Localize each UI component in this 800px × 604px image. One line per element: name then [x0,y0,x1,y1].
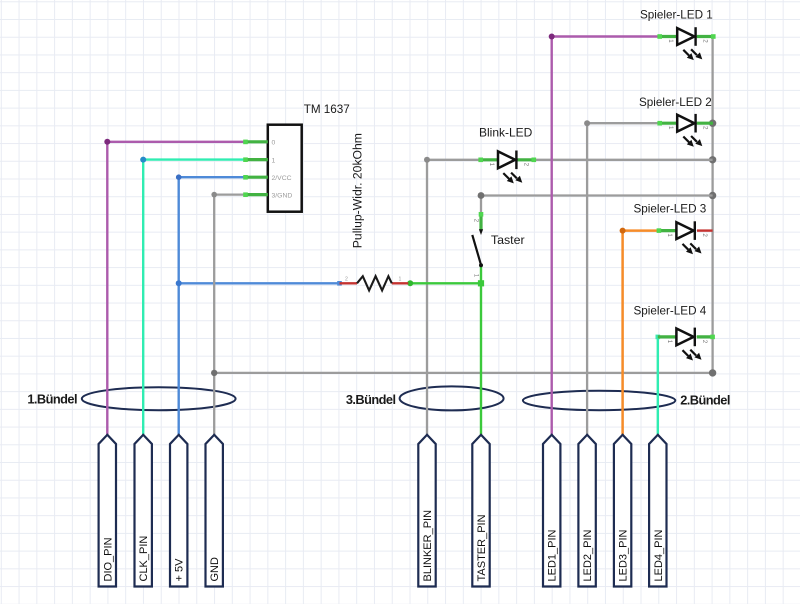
wire TASTER net (green): resistor to Taster bottom to TASTER_PIN [408,283,481,434]
connector LED4_PIN [649,435,666,587]
connector CLK_PIN [135,435,152,587]
pin stub anode LED2 [659,122,677,125]
cathode bar LED4 [694,328,696,347]
svg-text:1: 1 [666,233,673,237]
node bendpoint CLK [140,157,146,163]
lever Taster [472,235,481,265]
cathode bar LED1 [694,27,696,46]
pin stub cathode LED2 [697,122,713,125]
pin stub cathode LED4 [697,335,713,338]
pin stub anode LED3 [658,229,677,232]
connector TASTER_PIN [472,435,489,587]
diode triangle LED3 [676,222,693,239]
wire LED2 net (gray): Spieler-LED 2 anode to LED2_PIN [587,123,659,434]
connector DIO_PIN [99,435,116,587]
svg-text:2: 2 [345,277,348,283]
node bendpoint LED3 corner [620,228,626,234]
emission arrow 1 LED1 [683,50,689,56]
pin cap anode Blink-LED [478,158,483,163]
svg-text:TASTER_PIN: TASTER_PIN [476,514,488,581]
wire LED3 net (orange): Spieler-LED 3 anode to LED3_PIN [623,231,658,435]
pin stub cathode Blink-LED [518,158,534,161]
pin cap anode LED3 [657,228,662,233]
junction taster corner dot [478,192,485,199]
svg-text:Pullup-Widr. 20kOhm: Pullup-Widr. 20kOhm [351,133,365,248]
connector LED2_PIN [578,435,595,587]
bundle ellipse 1.Bündel [82,387,236,410]
top contact arrowhead Taster [479,229,483,235]
op-amp/IC U1 TM 1637 body [268,125,302,212]
LED Spieler-LED 4 [634,304,715,360]
wire VCC net (blue): TM1637 pin2 to +5V pin and to pullup resistor [179,177,340,434]
wire Taster top pin to GND bus (gray) [481,196,713,213]
pin stub 0 of U1 [245,140,268,143]
connector LED3_PIN [614,435,631,587]
resistor R1 leads (red) [340,282,409,284]
junction GND rail / GND pin [211,370,217,376]
svg-text:2: 2 [702,126,709,130]
pin cap 0 [243,140,248,145]
svg-text:Blink-LED: Blink-LED [479,126,533,140]
wire GND bus vertical right side [711,39,713,373]
svg-text:LED1_PIN: LED1_PIN [547,529,559,581]
emission arrow 1 LED4 [683,350,689,356]
wire LED3 cathode to bus (red) [697,229,713,231]
svg-text:2: 2 [701,340,708,344]
pin stub anode Blink-LED [480,158,498,161]
junction bus / Spieler-LED 2 cathode [709,120,716,127]
svg-text:1.Bündel: 1.Bündel [27,392,77,407]
resistor R1 zigzag [357,276,392,290]
bundle ellipse 2.Bündel [523,391,675,410]
connector LED1_PIN [543,435,560,587]
wire Blink-LED cathode to GND bus (gray) [534,159,713,161]
pin cap 3 [243,192,248,197]
svg-text:1: 1 [399,277,402,283]
junction green square at Taster bottom [478,280,484,286]
svg-text:1: 1 [272,157,276,164]
emission arrow 1 Blink-LED [503,173,509,179]
svg-text:2: 2 [522,163,529,167]
node green junction dot at resistor lead [407,280,413,286]
pin stub top Taster (green) [479,213,482,231]
switch Taster [472,212,524,278]
pin cap 1 [243,157,248,162]
wire LED4 net (cyan): Spieler-LED 4 anode to LED4_PIN [657,337,659,435]
svg-text:1: 1 [488,163,495,167]
junction VCC / resistor branch [176,280,182,286]
emission arrow 1 LED3 [683,244,689,250]
svg-text:2: 2 [701,233,708,237]
svg-text:LED3_PIN: LED3_PIN [618,529,630,581]
svg-text:1: 1 [667,126,674,130]
svg-text:TM 1637: TM 1637 [304,103,350,116]
bundle ellipse 3.Bündel [400,386,504,410]
pin stub anode LED4 [658,335,677,338]
svg-text:0: 0 [272,140,276,147]
svg-text:BLINKER_PIN: BLINKER_PIN [422,510,434,582]
svg-text:GND: GND [209,557,221,582]
node cyan cap at LED4 anode [656,335,661,340]
wire LED1 net (purple): Spieler-LED 1 anode to LED1_PIN [552,37,659,435]
svg-text:2.Bündel: 2.Bündel [680,393,730,408]
node bendpoint LED2 corner [584,120,590,126]
svg-text:3/GND: 3/GND [272,192,293,199]
node bendpoint LED1 corner [549,34,555,40]
diode triangle LED1 [677,28,694,45]
cathode bar LED2 [694,114,696,133]
junction bus corner at GND rail [709,369,716,376]
pin cap anode LED2 [657,121,662,126]
connector GND pin [206,435,223,587]
node bendpoint blinker corner [424,157,430,163]
pin cap cathode LED1 [711,34,716,39]
svg-text:Spieler-LED 3: Spieler-LED 3 [634,203,707,216]
svg-text:Spieler-LED 2: Spieler-LED 2 [639,96,712,109]
LED Blink-LED [478,126,536,184]
pin stub anode LED1 [659,35,677,38]
svg-text:3.Bündel: 3.Bündel [346,392,396,407]
cathode bar Blink-LED [515,151,517,170]
pin cap cathode LED4 [710,335,715,340]
svg-text:LED4_PIN: LED4_PIN [653,529,665,581]
svg-text:DIO_PIN: DIO_PIN [102,537,114,581]
cathode bar LED3 [694,221,696,240]
connector +5V pin [170,435,187,587]
pin cap cathode Blink-LED [532,158,537,163]
pin cap anode LED1 [657,34,662,39]
diode triangle LED2 [677,115,694,132]
bottom contact dot Taster [479,263,483,267]
LED Spieler-LED 1 [640,8,716,60]
node bendpoint DIO [104,139,110,145]
node bendpoint VCC corner [176,174,182,180]
node blue wire end cap at resistor lead [337,281,342,286]
emission arrow 2 LED1 [691,49,697,55]
LED Spieler-LED 3 [634,203,708,255]
LED Spieler-LED 2 [639,96,713,147]
emission arrow 2 Blink-LED [511,173,517,179]
svg-text:2/VCC: 2/VCC [272,175,292,182]
svg-text:1: 1 [667,39,674,43]
emission arrow 2 LED3 [690,243,696,249]
junction bus / Blink-LED cathode wire [709,156,716,163]
svg-text:2: 2 [702,39,709,43]
pin stub 1 of U1 [245,158,268,161]
svg-text:1: 1 [666,340,673,344]
junction bus / Taster wire [709,192,716,199]
svg-text:CLK_PIN: CLK_PIN [138,536,150,582]
pin stub cathode LED1 [697,35,713,38]
emission arrow 1 LED2 [683,137,689,143]
svg-text:LED2_PIN: LED2_PIN [582,529,594,581]
connector BLINKER_PIN [418,435,435,587]
svg-text:Taster: Taster [491,233,525,247]
svg-text:+ 5V: + 5V [174,558,186,582]
wire CLK net (cyan): TM1637 pin1 to CLK_PIN [143,160,244,435]
diode triangle Blink-LED [498,151,515,168]
diode triangle LED4 [676,329,693,346]
emission arrow 2 LED4 [690,350,696,356]
pin cap 2 [243,175,248,180]
wire Blink-LED anode to BLINKER_PIN (gray) [427,160,480,435]
pin cap top Taster [479,212,484,217]
pin stub 3 of U1 [245,193,268,196]
wire DIO net (purple): TM1637 pin0 to DIO_PIN [107,142,244,435]
svg-text:Spieler-LED 1: Spieler-LED 1 [640,8,713,21]
wire taster bottom stub green [480,266,482,283]
emission arrow 2 LED2 [691,136,697,142]
wire GND net from TM1637 pin3 down and GND rail [214,195,712,435]
pin stub 2 of U1 [245,176,268,179]
svg-text:Spieler-LED 4: Spieler-LED 4 [634,304,707,317]
node bendpoint GND corner [211,192,217,198]
